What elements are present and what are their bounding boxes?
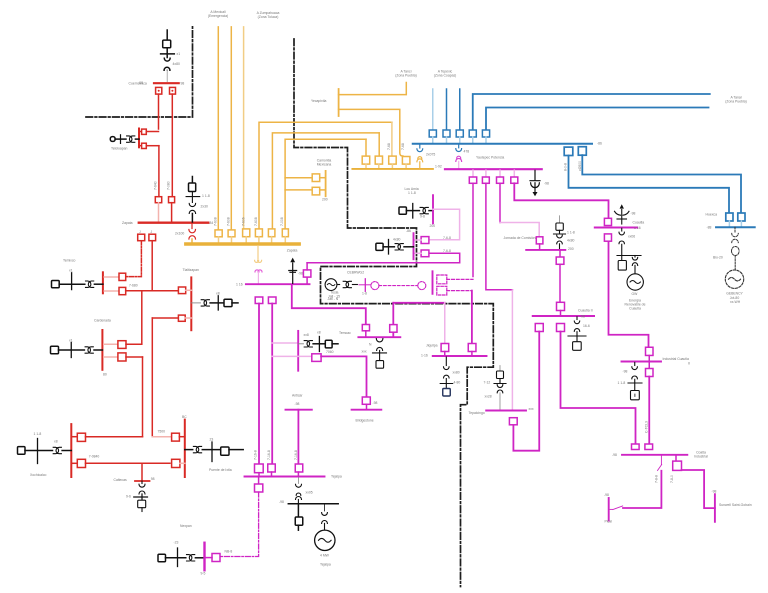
svg-text:1 1-8: 1 1-8 [202, 194, 210, 198]
svg-text:-98: -98 [298, 272, 303, 276]
breaker below IndCuautla [646, 362, 654, 376]
wire breaker A to bus (pale) [158, 203, 160, 222]
svg-text:7-16-8: 7-16-8 [253, 450, 257, 460]
svg-text:-98: -98 [631, 212, 636, 216]
breaker Teloloapan lower [139, 143, 159, 148]
svg-text:478: 478 [464, 150, 470, 154]
feeder Lou Amia black [399, 204, 433, 219]
bus Bridgestone [352, 409, 382, 411]
svg-text:xxx: xxx [529, 407, 534, 411]
wire nested line 3 [285, 139, 366, 229]
svg-text:-23: -23 [174, 541, 179, 545]
breaker Huexca B [738, 213, 745, 226]
breaker Camontia upper [312, 174, 325, 182]
svg-text:200: 200 [430, 224, 436, 228]
svg-text:2x100: 2x100 [175, 231, 184, 235]
breaker above Cuautla bus [604, 218, 611, 225]
svg-text:1 1-8: 1 1-8 [34, 432, 42, 436]
bus Cuernavaca [154, 82, 179, 84]
wire dash-dot Zapata to Temixco [126, 241, 141, 277]
svg-text:II: II [688, 362, 690, 366]
breaker Jiquilpa A [441, 344, 449, 356]
breaker blue 5 [482, 130, 489, 143]
breaker Coatla B [645, 444, 653, 450]
wire Zapata dashdot drop [138, 234, 145, 241]
svg-text:7-606: 7-606 [241, 217, 245, 226]
svg-text:80: 80 [103, 373, 107, 377]
breaker Tlaltizapan upper [178, 287, 191, 294]
svg-text:Mexicana: Mexicana [317, 163, 332, 167]
bus Cuautla [595, 227, 638, 229]
svg-text:Anticar: Anticar [292, 394, 303, 398]
svg-text:Bridgestone: Bridgestone [356, 419, 374, 423]
svg-text:(Emergencia): (Emergencia) [208, 14, 228, 18]
svg-text:Tlaltizapan: Tlaltizapan [183, 268, 200, 272]
svg-text:-98: -98 [279, 500, 284, 504]
svg-text:-98: -98 [544, 182, 549, 186]
bus Topan right bar [184, 420, 186, 477]
breaker dashed circle A [371, 282, 379, 290]
svg-text:Tepalcingo: Tepalcingo [469, 411, 485, 415]
breaker Zapata top B [169, 197, 175, 203]
wire Tlaltizapan to Topan [151, 318, 153, 437]
feeder Atlatlahucan black [376, 240, 414, 255]
breaker Yautepec 3 [497, 170, 504, 183]
svg-text:7-8-0: 7-8-0 [670, 475, 674, 483]
bus Lou Amia bar [432, 195, 434, 223]
svg-text:7-640: 7-640 [154, 181, 158, 190]
bus Zapata yellow [186, 242, 299, 245]
breaker Cardenada lower [104, 353, 143, 361]
bus Tanque vertical [297, 331, 299, 371]
wire Cardenada to Topan [142, 357, 144, 437]
svg-text:1 16: 1 16 [634, 226, 641, 230]
transformer K1 (Cuernavaca 115kV feed) [161, 30, 175, 70]
svg-text:Cardenada: Cardenada [94, 319, 111, 323]
wire dashed upper to Yautepec drop [447, 278, 473, 280]
wire blue to Huexca outer [569, 156, 730, 214]
svg-text:4x80: 4x80 [567, 239, 574, 243]
svg-text:J: J [151, 230, 153, 234]
breaker bus2 sq2 [375, 156, 382, 168]
svg-text:Industrial Cuautla: Industrial Cuautla [663, 357, 690, 361]
breaker blue below bus A [564, 147, 573, 155]
svg-text:GW: GW [632, 292, 639, 296]
breaker Bridgestone [362, 397, 370, 409]
breaker blue 4 [469, 130, 476, 143]
svg-text:C-TCL3: C-TCL3 [645, 421, 649, 433]
breaker Atlatlahucan lower [414, 250, 429, 257]
svg-text:7-0840: 7-0840 [89, 455, 100, 459]
svg-text:7-608: 7-608 [254, 217, 258, 226]
breaker bus2 sq3 [389, 156, 397, 168]
breaker Temixco lower [104, 287, 126, 294]
svg-text:9-5: 9-5 [201, 572, 206, 576]
line A Zumpahuaca [243, 27, 245, 229]
feeder Nexpan [158, 548, 205, 567]
wire Tetecala x292 riser [292, 285, 366, 324]
svg-text:16-6: 16-6 [583, 324, 590, 328]
svg-text:(Zona Coapas): (Zona Coapas) [434, 74, 457, 78]
svg-text:x8: x8 [317, 331, 321, 335]
bus Tejalpa [245, 476, 325, 478]
svg-text:Teloloapan: Teloloapan [111, 147, 128, 151]
breaker Tejalpa feed C [295, 464, 303, 476]
svg-text:1-16: 1-16 [421, 354, 428, 358]
transformer Zapata yellow to Tetecala magenta [255, 246, 262, 283]
transformer Cuautla below + generator [617, 228, 643, 290]
svg-text:x1: x1 [69, 339, 73, 343]
wire blue to Huexca inner [582, 155, 741, 213]
wire Yautepec2 down jog to Tepalcingo pale [486, 183, 513, 289]
svg-text:xx28: xx28 [485, 395, 492, 399]
svg-text:7-080: 7-080 [167, 181, 171, 190]
wire pale to Tepalcingo [511, 290, 513, 410]
breaker Coatla right [673, 456, 682, 471]
breaker bus2 sq4 [402, 157, 410, 169]
svg-text:Temixco: Temixco [63, 259, 76, 263]
breaker Temixco upper [104, 273, 126, 280]
line A Mexicali 2 [230, 27, 232, 229]
breaker Coatla A [632, 444, 640, 450]
svg-text:Xochicalco: Xochicalco [30, 473, 47, 477]
bus Cuautla II [533, 315, 594, 317]
breaker Topan lower-left [77, 459, 170, 467]
breaker Y5 [268, 229, 275, 243]
generator CEBRWG2 solid [325, 279, 337, 291]
bus Caltecas [135, 480, 150, 482]
svg-text:Huexca: Huexca [706, 213, 718, 217]
breaker below Cuautla bus [604, 234, 611, 241]
breaker Y4 [255, 229, 262, 243]
bus blue main [413, 143, 592, 145]
svg-text:9-6: 9-6 [126, 495, 131, 499]
wire LouAmia to Atlatlahucan upper [429, 209, 460, 240]
boundary dash-dot main zone line [294, 39, 493, 587]
feeder Puente de Ixtla [185, 442, 243, 462]
svg-text:xx05: xx05 [306, 491, 313, 495]
svg-text:Pical: Pical [605, 520, 613, 524]
wire transformer to Cuernavaca bus [166, 71, 168, 82]
wire nested line 1 [259, 122, 392, 229]
bus Alseseca yellow2 [352, 168, 433, 170]
breaker Tetecala right riser [303, 263, 311, 284]
bus Yecapixtla [338, 89, 340, 116]
reactor Tetecala black [289, 258, 297, 284]
breaker dashed circle B [418, 282, 426, 290]
breaker Tetecala drop B [268, 297, 276, 304]
breaker Tehuixtla B [390, 325, 397, 333]
transformer IndCuautla black [628, 362, 642, 399]
svg-text:8-0-8: 8-0-8 [564, 163, 568, 171]
svg-text:7-008: 7-008 [280, 217, 284, 226]
wire line1 down to sq3 (pale) [391, 122, 393, 156]
feeder Teloloapan black [110, 135, 139, 144]
wire Camontia tap lower [285, 189, 312, 191]
bus Nexpan magenta bar [203, 543, 205, 571]
bus Tejalpa black [288, 503, 338, 505]
wire IndCuautla to Coatla [648, 377, 650, 445]
wire CuautlaII to Coatla [561, 332, 636, 445]
wire Yautepec1 down to dashed tee [472, 183, 474, 276]
wire to Bridgestone [321, 356, 366, 397]
svg-text:1 1-8: 1 1-8 [618, 381, 626, 385]
wire junction Temixco-Tlaltizapan [126, 290, 179, 292]
wire Tetecala to Tejalpa long [258, 304, 260, 465]
svg-text:7-12: 7-12 [484, 381, 491, 385]
breaker black below [295, 504, 303, 530]
svg-text:-98: -98 [604, 493, 609, 497]
transformer K2 (Zapata 115kV) [186, 177, 200, 223]
wire magenta dashdot Tejalpa-Nexpan [221, 492, 259, 557]
svg-text:1 16: 1 16 [236, 283, 243, 287]
breaker Y6 [282, 229, 288, 243]
svg-text:7-8-8: 7-8-8 [655, 475, 659, 483]
svg-text:-98: -98 [712, 490, 717, 494]
reactor Cuautla above [615, 204, 630, 224]
svg-text:xx80: xx80 [453, 371, 460, 375]
bus Sunwell [714, 494, 716, 522]
svg-text:2x30: 2x30 [201, 205, 208, 209]
node Teloloapan bar [138, 129, 140, 148]
wire line2 down to sq2 [378, 133, 380, 156]
svg-text:200: 200 [322, 198, 328, 202]
svg-text:7-608: 7-608 [214, 217, 218, 226]
bus Industrial Cuautla [622, 361, 662, 363]
feeder Tanque black right [298, 337, 338, 352]
wire Yecapixtla to A Tanci [339, 83, 407, 95]
svg-text:7-6-8: 7-6-8 [443, 249, 451, 253]
svg-text:-98: -98 [580, 315, 585, 319]
wire Tetecala B down with taps [271, 304, 273, 465]
wire Topan upper left [71, 436, 77, 438]
breaker Nexpan magenta [205, 554, 221, 562]
svg-text:Cuautla: Cuautla [629, 307, 641, 311]
line blue stub 2 [446, 89, 448, 130]
svg-text:Tejalpa: Tejalpa [320, 563, 331, 567]
line A Mexicali 1 [217, 27, 219, 229]
svg-text:CEBRWG2: CEBRWG2 [347, 271, 364, 275]
breaker Tejalpa feed A [255, 464, 264, 476]
wire Cuautla vertical south [609, 241, 649, 347]
breaker dashed sq lower [437, 286, 447, 295]
wire Zapata to Tlaltizapan junction [151, 241, 153, 291]
bus Camontia Mexicana [325, 171, 327, 196]
svg-text:7-16-8: 7-16-8 [294, 450, 298, 460]
capacitor Yautepec black [530, 170, 540, 196]
breaker Camontia lower [312, 187, 325, 195]
svg-text:7-680: 7-680 [129, 283, 138, 287]
svg-text:Puente de Ixtla: Puente de Ixtla [209, 468, 232, 472]
breaker Jornada [536, 237, 543, 249]
breaker Huexca A [726, 213, 733, 226]
svg-text:x8: x8 [216, 292, 220, 296]
svg-text:23: 23 [210, 438, 214, 442]
svg-text:1 1-8: 1 1-8 [567, 231, 575, 235]
svg-text:Jornada de Comisión: Jornada de Comisión [504, 236, 536, 240]
svg-text:Nexpan: Nexpan [180, 524, 192, 528]
svg-text:x1: x1 [177, 52, 181, 56]
svg-text:-98: -98 [612, 453, 617, 457]
svg-text:xxx: xxx [362, 350, 367, 354]
feeder Cardenada black [51, 343, 103, 358]
symbol arcs CEBRWG2 [337, 281, 357, 287]
svg-text:4 MW: 4 MW [320, 554, 330, 558]
breaker Atlatlahucan upper [414, 237, 429, 244]
svg-text:xx-WH: xx-WH [730, 300, 741, 304]
breaker below Tejalpa [255, 478, 263, 493]
wire Cuernavaca to Teloloapan x=158.4 [158, 94, 160, 129]
bus Tlaltizapan [190, 277, 192, 330]
wire nested line 2 [272, 133, 379, 229]
svg-text:Zapata: Zapata [287, 249, 298, 253]
breaker Zapata drop B [149, 234, 156, 241]
line blue stub 3 [459, 89, 461, 130]
svg-text:7060: 7060 [326, 350, 334, 354]
svg-text:200: 200 [568, 247, 574, 251]
wire dashed CEBRWG2 [379, 285, 418, 287]
svg-text:BC: BC [182, 415, 187, 419]
svg-text:-88: -88 [707, 226, 712, 230]
breaker blue 3 [456, 130, 463, 143]
transformer Jiquilpa black [440, 357, 453, 396]
bus Tehuixtla [358, 336, 400, 338]
wire Yautepec3 to Jornada [499, 183, 501, 222]
bus Cardenada [101, 330, 103, 370]
svg-text:Yecapixtla: Yecapixtla [311, 99, 326, 103]
bus Pical [608, 498, 610, 521]
svg-text:9-8: 9-8 [420, 215, 425, 219]
breaker Cuernavaca A [156, 87, 162, 94]
breaker Topan upper-left [77, 433, 142, 441]
generator GEBENCY dashed [725, 270, 743, 288]
wire Tetecala to Atlatlahucan lower [307, 253, 460, 262]
bus Tetecala [246, 283, 310, 285]
svg-text:Temoac: Temoac [339, 331, 351, 335]
boundary dash-dot top-left (Cuernavaca zone) [86, 27, 193, 117]
wire Coatla to Pical with disconnects [610, 456, 662, 510]
bus Temixco [102, 272, 104, 293]
svg-text:-98: -98 [623, 370, 628, 374]
breaker Topan lower-right [172, 459, 185, 467]
svg-text:7500: 7500 [158, 429, 166, 433]
bus Tepalcingo [486, 410, 526, 412]
transformer Tejalpa to black [296, 478, 302, 504]
transformer Huexca dashed [732, 227, 740, 269]
bus Zapata red [139, 221, 208, 223]
svg-text:7-6-8: 7-6-8 [443, 236, 451, 240]
svg-text:7-68: 7-68 [387, 143, 391, 150]
svg-text:(Zona Puebla): (Zona Puebla) [395, 74, 417, 78]
svg-text:Cuautla II: Cuautla II [578, 309, 593, 313]
breaker Teloloapan upper [139, 129, 159, 134]
breaker Tlaltizapan lower [152, 315, 191, 321]
svg-text:7-608: 7-608 [227, 217, 231, 226]
breaker Tetecala drop A [255, 297, 263, 304]
transformer Zapata red-yellow [189, 224, 196, 240]
breaker blue 2 [443, 130, 450, 143]
svg-text:x8: x8 [54, 440, 58, 444]
svg-text:Industrial: Industrial [694, 455, 708, 459]
wire junction down to Cardenada [141, 291, 143, 344]
wire Cuernavaca to Zapata x=172.3 [171, 94, 173, 197]
breaker Yautepec 2 [482, 170, 489, 183]
svg-text:Bio-20: Bio-20 [713, 256, 723, 260]
line blue stub 1 [432, 89, 434, 130]
svg-text:GEBENCY: GEBENCY [726, 292, 743, 296]
svg-text:2x075: 2x075 [426, 153, 435, 157]
breaker Tehuixtla A [362, 325, 369, 337]
wire Jiquilpa-corner riser [393, 303, 444, 337]
svg-text:4x80: 4x80 [393, 238, 400, 242]
svg-text:xx8: xx8 [304, 333, 309, 337]
bus Anticar [286, 409, 312, 411]
svg-text:98: 98 [151, 477, 155, 481]
transformer Tepalcingo black [494, 366, 506, 411]
bus Huexca [716, 226, 755, 228]
svg-text:-98: -98 [373, 401, 378, 405]
transformer Tehuixtla black [373, 339, 387, 369]
breaker Cuernavaca B [170, 87, 176, 94]
svg-text:Yautepec Potencia: Yautepec Potencia [476, 156, 504, 160]
svg-text:x1: x1 [69, 269, 73, 273]
svg-text:4-80: 4-80 [454, 381, 461, 385]
transformer Caltecas [134, 481, 148, 512]
breaker Y3 [243, 229, 250, 243]
wire Jornada to CuautlaII [559, 264, 561, 302]
feeder Temixco black [52, 273, 103, 290]
svg-text:Jati - 15: Jati - 15 [328, 295, 340, 299]
svg-text:Cuernavaca: Cuernavaca [129, 81, 147, 85]
wire Caltecas branch [141, 463, 143, 481]
svg-text:7-16-8: 7-16-8 [267, 450, 271, 460]
svg-text:4x80: 4x80 [173, 62, 180, 66]
breaker above IndCuautla [646, 347, 654, 360]
bus CEBRWG2 bar [432, 271, 434, 294]
feeder Xochicalco [18, 439, 72, 464]
wire breaker B to bus [171, 203, 173, 222]
wire line3 down to sq1 [365, 139, 367, 156]
wire Topan lower left [71, 462, 77, 464]
svg-text:xx06: xx06 [628, 235, 635, 239]
svg-text:7-68: 7-68 [401, 143, 405, 150]
svg-text:-98: -98 [295, 402, 300, 406]
svg-text:N: N [369, 343, 372, 347]
breaker Y2 [228, 230, 235, 243]
bus Coatla Industrial [622, 454, 687, 456]
transformer CuautlaII black [568, 317, 586, 351]
svg-text:1-8: 1-8 [362, 292, 367, 296]
svg-text:Zapata: Zapata [122, 221, 133, 225]
wire dashed lower to Jiquilpa drop [447, 290, 472, 292]
svg-text:98: 98 [139, 81, 143, 85]
breaker below CuautlaII left [535, 324, 543, 332]
breaker below Jornada [556, 250, 564, 264]
wire Anticar to Tejalpa [297, 410, 299, 464]
breaker below CuautlaII right [557, 324, 565, 332]
breaker Yautepec 1 [469, 170, 476, 183]
svg-text:J: J [139, 230, 141, 234]
wire yellow stub to yellow bus [191, 239, 193, 243]
wire Temoac junction [272, 355, 312, 357]
bus Jiquilpa [433, 355, 487, 357]
node magenta bar CEBRWG2 [359, 279, 372, 292]
wire Teloloapan to Zapata [158, 146, 160, 197]
breaker Tejalpa feed B [268, 464, 276, 476]
wire Yautepec4 to Cuautla [514, 183, 608, 218]
generator Tejalpa [315, 504, 335, 551]
breaker Cardenada upper [104, 341, 142, 349]
